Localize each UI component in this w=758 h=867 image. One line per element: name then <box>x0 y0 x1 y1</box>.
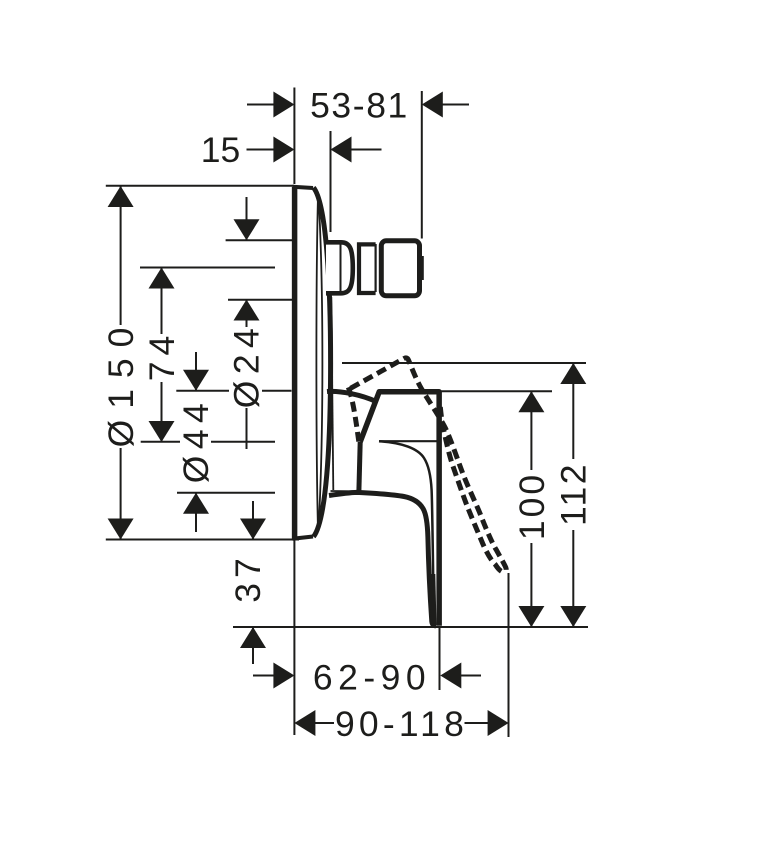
svg-text:112: 112 <box>554 462 594 526</box>
svg-text:Ø44: Ø44 <box>176 397 216 484</box>
svg-text:90-118: 90-118 <box>335 704 468 744</box>
svg-text:Ø150: Ø150 <box>101 317 141 448</box>
svg-text:Ø24: Ø24 <box>226 322 266 409</box>
svg-text:62-90: 62-90 <box>313 658 431 698</box>
svg-text:37: 37 <box>228 553 268 603</box>
svg-text:15: 15 <box>201 130 241 170</box>
svg-text:74: 74 <box>142 330 182 382</box>
svg-text:53-81: 53-81 <box>310 86 409 126</box>
svg-text:100: 100 <box>512 472 552 540</box>
